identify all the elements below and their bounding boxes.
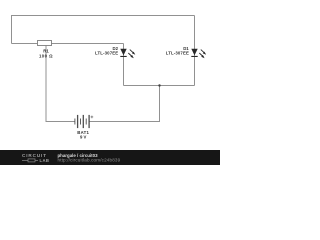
svg-text:LTL-307EE: LTL-307EE (95, 51, 118, 56)
footer bar (0, 150, 220, 165)
battery BAT1 plates (75, 115, 89, 128)
svg-text:LTL-307EE: LTL-307EE (166, 51, 189, 56)
node junction dot (158, 84, 160, 86)
resistor R1 body (38, 41, 52, 46)
battery plus sign (91, 116, 94, 119)
wire: bus down to battery plus (89, 86, 159, 122)
LED D1 symbol (191, 49, 206, 58)
wire: D2 anode/cathode vertical (123, 44, 125, 86)
wire: top rail (12, 16, 195, 44)
footer CircuitLab logo: resistor glyph + LAB (22, 159, 38, 162)
wire: D1 vertical from top rail (194, 16, 196, 86)
svg-text:100 Ω: 100 Ω (39, 54, 53, 59)
wire: middle horizontal from left rail to D2 branch (12, 43, 124, 45)
LED D2 symbol (120, 49, 135, 58)
svg-text:http://circuitlab.com/c24b839: http://circuitlab.com/c24b839 (58, 158, 121, 163)
svg-text:9 V: 9 V (80, 134, 87, 139)
svg-text:LAB: LAB (40, 158, 50, 163)
wire: resistor stub down to battery, corner to battery minus (46, 44, 75, 122)
wire: cathode bus (124, 85, 195, 87)
